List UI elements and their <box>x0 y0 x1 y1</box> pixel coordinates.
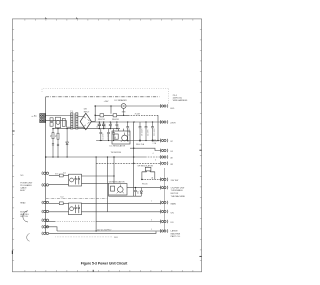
DC breaker CB1 <box>121 104 126 116</box>
svg-text:NO: NO <box>21 175 24 177</box>
capacitor C2 <box>102 122 105 129</box>
wire: block B upper to MAIN connector <box>49 202 59 204</box>
filter block B <box>69 203 82 215</box>
wire: AC neutral <box>40 120 67 122</box>
svg-text:VR: VR <box>170 164 173 166</box>
wire: rail +DC top (to LED connector) <box>95 105 160 107</box>
svg-text:MAIN: MAIN <box>171 203 177 206</box>
wire: removed harness (dashed, top) <box>42 89 169 92</box>
transformer secondary wires <box>78 114 86 130</box>
fuse block <box>62 118 65 126</box>
svg-text:C1: C1 <box>97 126 99 128</box>
svg-text:C5 47M: C5 47M <box>102 133 104 140</box>
connector CN L5 <box>43 219 45 221</box>
svg-text:hv1: hv1 <box>63 172 66 174</box>
wire: VC rail <box>96 140 161 142</box>
svg-text:V4: V4 <box>170 151 173 153</box>
capacitor C7 <box>126 122 129 141</box>
capacitor C8 <box>139 122 142 141</box>
wire: SP legs <box>142 172 155 180</box>
connector CN V4 <box>161 149 168 153</box>
wire: VR rail <box>96 162 161 164</box>
regulator U1 box <box>112 129 130 144</box>
connector CN L6 <box>43 226 45 228</box>
capacitor C6b <box>112 129 115 141</box>
wire: bridge positive vertical <box>94 106 96 122</box>
right column connecting vertical <box>163 168 165 231</box>
connector CN VR <box>161 161 168 165</box>
brace left motor group <box>23 211 28 222</box>
fuse F1 on mid rail <box>100 114 104 117</box>
connector CN L4 <box>43 210 45 212</box>
svg-text:C10 10M: C10 10M <box>154 128 156 136</box>
connector CN L1 <box>43 172 45 174</box>
divider resistor R2 <box>57 129 59 157</box>
svg-text:C9 47M: C9 47M <box>147 129 149 136</box>
svg-text:SWITCH: SWITCH <box>20 216 28 218</box>
connector CN VC <box>161 139 168 143</box>
note PS-3 top right <box>173 95 188 102</box>
svg-text:DC REGULATOR: DC REGULATOR <box>110 145 126 148</box>
left connector column <box>42 172 49 235</box>
wire: long vertical bus A <box>133 122 135 196</box>
filter block A <box>69 174 82 186</box>
wire: block A lower <box>49 183 69 185</box>
svg-text:1: 1 <box>151 201 152 203</box>
svg-text:NO1: NO1 <box>55 173 59 175</box>
capacitor CX (X-cap) <box>50 118 53 126</box>
svg-text:C2: C2 <box>104 126 106 128</box>
svg-text:WIRE HARNESS: WIRE HARNESS <box>173 99 188 102</box>
frame center marks (darker) <box>12 18 201 272</box>
svg-text:DS1: DS1 <box>114 237 118 239</box>
AC inlet connector top <box>40 114 46 123</box>
svg-text:2 2A: 2 2A <box>153 142 157 145</box>
capacitor C4 <box>116 122 119 129</box>
capacitor C11 <box>134 188 137 197</box>
svg-text:REG 25A: REG 25A <box>136 143 145 146</box>
capacitor C9 <box>145 122 148 141</box>
frame tick marks bottom <box>25 270 193 272</box>
connector CN MAIN <box>161 201 168 205</box>
svg-text:C11: C11 <box>137 191 139 194</box>
divider resistor R1 <box>52 129 54 157</box>
connector CN L2 <box>43 184 45 186</box>
svg-text:48: 48 <box>170 157 173 159</box>
svg-text:ASSY: ASSY <box>20 189 26 192</box>
connector CN DS <box>161 220 168 224</box>
svg-text:3: 3 <box>151 220 152 222</box>
noise filter NF <box>55 117 60 128</box>
wire: vertical C <box>107 157 109 212</box>
DB regulator U2 box <box>109 184 128 196</box>
wire: V4 rail <box>130 148 161 150</box>
fuse F2 on mid rail <box>113 114 117 117</box>
svg-text:4: 4 <box>153 153 154 155</box>
wire: long vertical bus B <box>95 157 97 231</box>
node: C11 junction <box>135 187 136 188</box>
wire: SP output dashed <box>142 178 161 180</box>
page border frame <box>12 19 201 272</box>
connector CN 24VSW <box>161 178 168 182</box>
capacitor C1 <box>98 122 101 129</box>
AC inlet connector bottom <box>40 119 46 123</box>
diode D1 <box>66 129 69 157</box>
wire: DB regulator output <box>127 187 161 189</box>
resistor R3 <box>59 174 63 177</box>
svg-text:+24V: +24V <box>104 101 110 103</box>
wire: block A upper <box>49 175 59 177</box>
svg-text:MOTOR: MOTOR <box>171 193 179 195</box>
wire: DS row <box>46 221 55 223</box>
left labels <box>20 175 33 218</box>
wire: lower row with bend <box>46 227 57 231</box>
right labels <box>170 108 185 238</box>
junction dots <box>45 105 159 231</box>
wire: drop to VC <box>157 115 159 140</box>
wire: cap bank top rail to 24VH connector <box>91 121 161 123</box>
wire: vertical D <box>113 157 115 184</box>
svg-text:MACHINE: MACHINE <box>171 232 181 235</box>
connector CN LED <box>161 104 168 108</box>
right connector column <box>161 104 168 233</box>
svg-text:DS: DS <box>171 222 175 224</box>
power unit boundary box (dash-dot) <box>46 97 160 234</box>
svg-text:DC BRAKER: DC BRAKER <box>115 99 128 102</box>
svg-text:24V DC SUPPLY: 24V DC SUPPLY <box>97 229 112 231</box>
wire: rail mid (regulator input) <box>95 114 128 116</box>
svg-text:AC: AC <box>34 115 37 118</box>
svg-text:THE MACHINE: THE MACHINE <box>171 195 186 198</box>
resistor R4 <box>59 202 63 205</box>
connector CN L3 <box>43 201 45 203</box>
connector CN UN <box>161 210 168 214</box>
svg-text:DB REGULATOR: DB REGULATOR <box>109 181 125 184</box>
svg-text:VC: VC <box>170 141 173 143</box>
SP regulator Q2 <box>142 167 155 172</box>
wire: unplugged harness drop <box>167 89 169 104</box>
svg-text:LED: LED <box>170 108 175 110</box>
capacitor C5 <box>99 129 102 141</box>
pin labels near connectors <box>151 142 157 231</box>
svg-text:Figure 5-3 Power Unit Circuit: Figure 5-3 Power Unit Circuit <box>81 262 128 266</box>
svg-text:24V SW: 24V SW <box>171 180 179 182</box>
capacitor C3 <box>109 122 112 129</box>
svg-text:C3 47M: C3 47M <box>111 122 113 129</box>
wire: block B lower to UN connector <box>49 211 69 213</box>
dotted line bottom <box>56 236 114 238</box>
svg-text:75.0M: 75.0M <box>135 113 141 115</box>
connector CN NOTE <box>161 186 168 190</box>
svg-text:C4: C4 <box>118 126 120 128</box>
frame tick marks right <box>200 29 202 260</box>
frame tick marks top <box>25 19 193 21</box>
boundary divider dash-dot <box>46 198 108 200</box>
connector CN 24VH <box>161 120 168 124</box>
wire: AC live <box>40 106 161 233</box>
svg-text:SP REGULATOR: SP REGULATOR <box>138 165 154 168</box>
wire: bottom of regulator area <box>109 195 142 196</box>
wire: bottom row 1 <box>57 230 161 232</box>
svg-text:6: 6 <box>155 159 156 161</box>
svg-text:PLUG: PLUG <box>142 183 148 185</box>
connector CN L7 <box>43 232 45 234</box>
svg-text:24VH: 24VH <box>170 123 176 125</box>
svg-text:REG5M: REG5M <box>112 119 119 121</box>
connector CN LOW <box>161 229 168 233</box>
wire: bottom rail of left cap group <box>53 128 120 130</box>
svg-text:DB: DB <box>84 108 88 110</box>
svg-text:C8 100M: C8 100M <box>141 128 143 136</box>
capacitor C10 <box>151 122 154 141</box>
bridge rectifier DB <box>80 113 91 130</box>
svg-text:CN-PWR UNIT: CN-PWR UNIT <box>171 187 186 189</box>
frame tick marks left <box>12 29 14 260</box>
svg-text:TM 5M1134: TM 5M1134 <box>111 152 122 154</box>
svg-text:HEAD: HEAD <box>20 202 26 205</box>
svg-text:C6 25V: C6 25V <box>107 133 109 140</box>
wire: main mid rail to 48 connector <box>46 156 145 158</box>
svg-text:REG7M: REG7M <box>98 119 105 121</box>
svg-text:RECT: RECT <box>84 112 90 114</box>
zener D2 <box>140 188 142 197</box>
capacitor C6 <box>107 129 110 141</box>
svg-text:UN: UN <box>171 212 175 214</box>
resistor on VC line <box>152 140 156 142</box>
transformer T1 <box>71 113 78 129</box>
svg-text:TURNTABLE: TURNTABLE <box>171 189 184 192</box>
svg-text:LARGE: LARGE <box>171 230 179 233</box>
svg-text:5: 5 <box>151 229 152 231</box>
brace bottom left <box>27 234 30 242</box>
svg-text:PART CLL: PART CLL <box>171 235 182 238</box>
wire: bottom row 2 <box>49 231 156 233</box>
wire: fuse F2 feed vertical <box>110 106 112 114</box>
connector CN 48 <box>161 155 168 159</box>
